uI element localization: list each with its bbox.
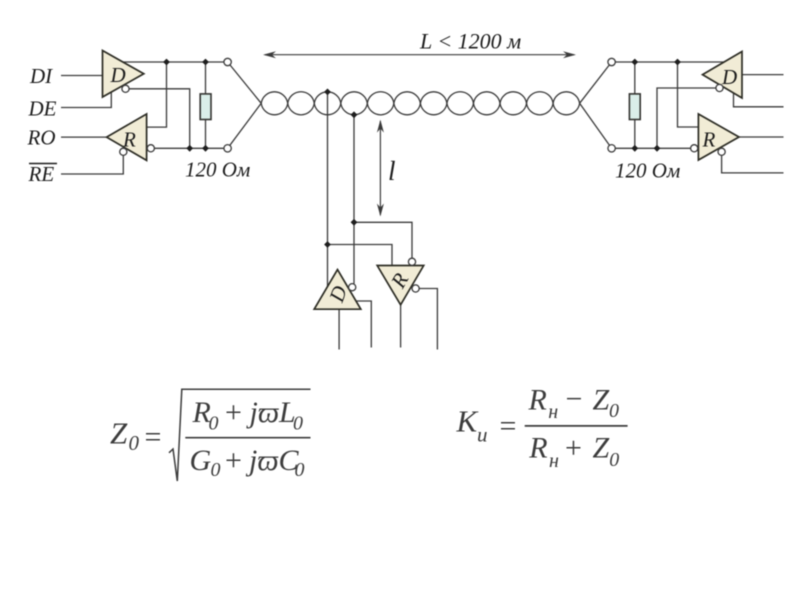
junction dots left — [163, 59, 209, 152]
svg-text:0: 0 — [609, 449, 619, 471]
svg-text:K: K — [456, 404, 480, 439]
wire D3 enable lead — [356, 301, 371, 348]
svg-text:0: 0 — [609, 400, 619, 422]
svg-text:0: 0 — [209, 413, 219, 435]
wire DE input left (L-shape) — [61, 92, 111, 108]
svg-text:R: R — [528, 432, 547, 465]
svg-text:120 Ом: 120 Ом — [185, 158, 250, 182]
svg-text:=: = — [500, 410, 517, 443]
wire bottom bus right — [612, 147, 691, 149]
svg-text:D: D — [110, 63, 126, 87]
junction dots middle — [324, 89, 357, 248]
wire R3 enable lead — [419, 289, 437, 350]
dimension arrow L<1200m — [263, 51, 576, 58]
svg-text:D: D — [721, 65, 737, 89]
svg-text:+: + — [225, 444, 242, 477]
wire D1 inverted output down to bottom bus — [129, 89, 190, 149]
svg-text:R: R — [702, 128, 716, 152]
svg-text:120 Ом: 120 Ом — [615, 159, 680, 183]
dimension arrow l (vertical) — [377, 120, 384, 217]
formula Z0 = sqrt((R0+jwL0)/(G0+jwC0)) — [110, 389, 311, 481]
svg-text:RO: RO — [27, 126, 56, 150]
svg-text:0: 0 — [211, 459, 221, 481]
svg-text:DE: DE — [28, 97, 57, 121]
wire D3 input lead down — [338, 309, 340, 349]
svg-text:+: + — [565, 432, 582, 465]
svg-text:0: 0 — [129, 431, 140, 455]
wire middle junction1 to R3 inverting input — [354, 222, 412, 258]
svg-text:Z: Z — [110, 416, 128, 451]
wire bottom bus left — [155, 147, 228, 149]
svg-text:R: R — [528, 383, 547, 416]
wire D2 inverted output down to bottom bus — [657, 88, 716, 148]
svg-text:L < 1200 м: L < 1200 м — [419, 29, 521, 54]
wire D1 output to top bus — [123, 61, 228, 63]
wire DE input right (L-shape) — [734, 93, 784, 107]
svg-text:DI: DI — [29, 64, 53, 88]
driver D3 (middle, pointing up) — [314, 270, 361, 310]
wire DI input right — [742, 74, 784, 76]
svg-text:Z: Z — [593, 383, 610, 416]
wire RE input left (L-shape) — [61, 155, 123, 174]
junction dots right — [631, 59, 681, 152]
driver D2 — [703, 52, 743, 99]
wire R2 upper input from top bus — [678, 62, 699, 127]
wire stub A from cable tap to middle D3 — [327, 92, 329, 287]
wire R3 output lead down — [400, 305, 402, 348]
wire D2 output to top bus — [612, 61, 725, 63]
svg-text:н: н — [548, 401, 558, 423]
wire RO output left — [61, 136, 107, 138]
svg-text:l: l — [388, 156, 396, 186]
svg-text:jϖC: jϖC — [245, 444, 300, 477]
receiver R3 (middle, pointing down) — [377, 266, 424, 305]
svg-text:RE: RE — [28, 162, 55, 186]
receiver R2 — [698, 114, 739, 160]
svg-text:Z: Z — [593, 432, 610, 465]
svg-text:0: 0 — [293, 413, 303, 435]
svg-text:н: н — [549, 450, 559, 472]
svg-text:jϖL: jϖL — [246, 396, 296, 429]
resistor RT2 120 Ohm — [629, 94, 640, 120]
wire middle junction2 to R3 input — [328, 245, 393, 266]
svg-text:и: и — [477, 423, 488, 447]
driver D1 — [103, 51, 144, 98]
wire RE input right (L-shape) — [722, 155, 784, 173]
resistor RT1 120 Ohm — [200, 94, 211, 120]
formula Ku = (Rn-Z0)/(Rn+Z0) — [456, 383, 628, 472]
twisted pair strand 2 — [228, 62, 612, 148]
twisted pair strand 1 — [228, 62, 612, 148]
wire RO output right — [739, 136, 784, 138]
wire resistor RT2 leads — [634, 62, 636, 94]
svg-text:+: + — [225, 396, 242, 429]
svg-text:−: − — [566, 383, 583, 416]
terminal node circles — [120, 58, 726, 292]
svg-text:G: G — [190, 444, 212, 477]
receiver R1 — [107, 114, 147, 160]
wire resistor RT1 leads — [205, 62, 207, 94]
inverting bubbles — [122, 85, 129, 92]
wire stub B from cable tap to middle D3 inverted output — [353, 115, 355, 284]
wire DI input left — [61, 75, 103, 77]
wire R1 upper input from top bus — [147, 62, 167, 127]
svg-text:0: 0 — [295, 459, 305, 481]
svg-text:=: = — [145, 420, 162, 453]
